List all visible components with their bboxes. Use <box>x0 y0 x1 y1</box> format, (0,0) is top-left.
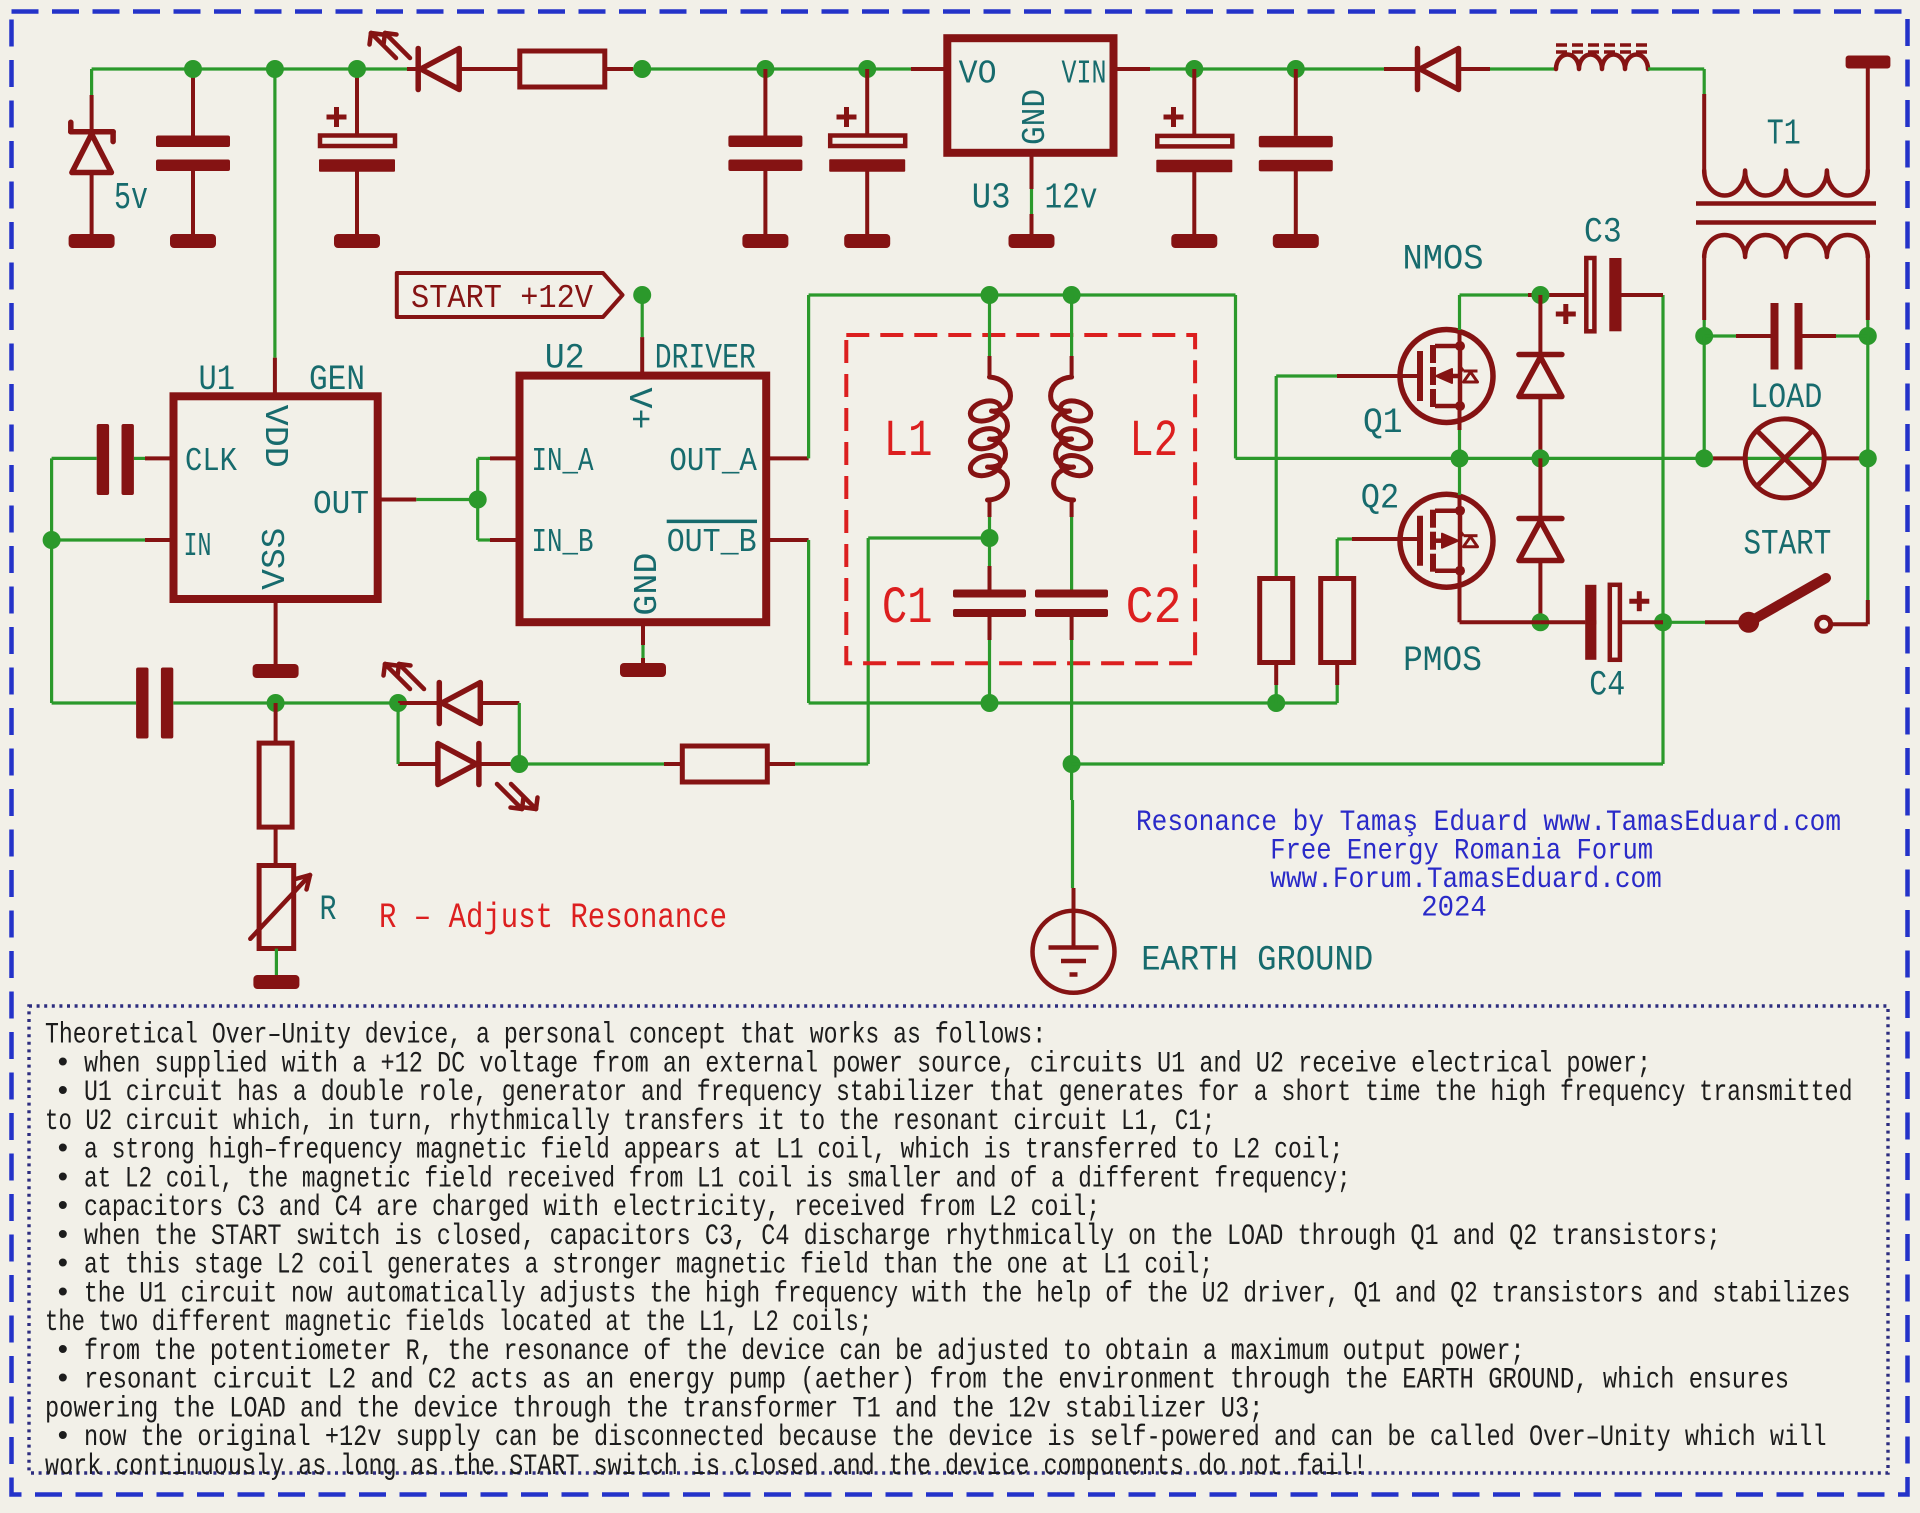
resistor R3 <box>682 746 767 782</box>
junction <box>858 60 876 78</box>
wire L3 to T1 <box>1648 67 1704 70</box>
ground C8 <box>844 234 890 248</box>
ground VSS <box>253 664 299 678</box>
junction D6 top <box>1531 286 1549 304</box>
svg-text:OUT_B: OUT_B <box>667 524 757 561</box>
pot gnd lead <box>275 949 278 975</box>
svg-text:START: START <box>1744 525 1832 565</box>
svg-text:5v: 5v <box>114 177 148 220</box>
wire load right <box>1866 336 1869 458</box>
svg-text:L2: L2 <box>1129 412 1178 471</box>
text description box <box>29 1006 1888 1473</box>
junction IN <box>43 531 61 549</box>
potentiometer R <box>259 866 294 949</box>
wire loop right <box>1234 295 1237 458</box>
resistor R5 <box>1321 579 1354 663</box>
svg-text:OUT: OUT <box>313 486 369 523</box>
wire R2 lead <box>274 703 278 743</box>
junction led2 <box>510 755 528 773</box>
junction VDD rail <box>266 60 284 78</box>
wire C4 left <box>1585 620 1596 624</box>
junction earth <box>1063 755 1081 773</box>
ground pot <box>253 975 299 989</box>
lamp LOAD <box>1704 456 1745 460</box>
svg-text:VO: VO <box>959 56 997 93</box>
box resonant dashed <box>846 335 1195 663</box>
terminal bar T1 <box>1846 56 1891 69</box>
inductor L2 <box>1070 295 1073 356</box>
wire to switch <box>1663 621 1705 624</box>
inductor L1 <box>988 295 991 356</box>
capacitor C6 electrolytic <box>355 69 359 136</box>
wire D3 left lead <box>398 701 439 705</box>
wire LED to R1 <box>459 67 520 71</box>
wire C12 corner <box>52 457 97 460</box>
wire R1 to U3 <box>605 67 633 71</box>
ground C9 <box>1171 234 1217 248</box>
wire T1 sec right <box>1866 257 1870 320</box>
transistor Q2 gate wire <box>1337 537 1352 540</box>
junction START net <box>633 60 651 78</box>
junction D7 bottom <box>1531 613 1549 631</box>
pin INB <box>490 538 520 542</box>
svg-text:VIN: VIN <box>1062 56 1107 93</box>
ground C10 <box>1273 234 1319 248</box>
wire C4r up C3r <box>1661 295 1664 622</box>
junction Q1Q2 <box>1451 449 1469 467</box>
junction load right <box>1859 449 1877 467</box>
junction <box>348 60 366 78</box>
pin OUT_B <box>766 538 808 542</box>
svg-text:C4: C4 <box>1589 665 1625 705</box>
pin GND U2 <box>641 622 645 645</box>
svg-text:OUT_A: OUT_A <box>669 443 757 480</box>
capacitor C13 <box>136 668 148 739</box>
wire Q1 drain <box>1458 295 1461 330</box>
overline OUT_B <box>667 520 757 524</box>
resistor R1 <box>520 51 605 87</box>
junction <box>1063 286 1081 304</box>
svg-text:IN: IN <box>184 528 212 565</box>
svg-text:CLK: CLK <box>185 443 237 480</box>
pin V+ <box>641 295 644 337</box>
pin OUT <box>378 498 417 502</box>
junction start <box>633 286 651 304</box>
svg-text:U3: U3 <box>972 178 1011 219</box>
svg-text:T1: T1 <box>1767 114 1801 155</box>
svg-text:PMOS: PMOS <box>1403 641 1482 681</box>
ic U2 body <box>520 376 767 623</box>
plus C4 <box>1629 599 1649 604</box>
svg-text:2024: 2024 <box>1421 892 1487 926</box>
resistor R2 <box>259 743 292 827</box>
ic U1 body <box>174 396 378 599</box>
wire earth to C4 net <box>1072 762 1663 765</box>
wire D2 to L3 <box>1459 67 1491 71</box>
svg-text:IN_B: IN_B <box>532 524 594 561</box>
junction <box>1287 60 1305 78</box>
svg-text:C3: C3 <box>1584 213 1622 253</box>
wire Q2 source <box>1458 571 1462 623</box>
wire down left <box>50 540 53 703</box>
ground C5 <box>170 234 216 248</box>
svg-text:GND: GND <box>1017 89 1054 145</box>
capacitor C4 <box>1585 585 1596 660</box>
wire load left <box>1703 336 1706 458</box>
capacitor C8 electrolytic <box>865 69 869 136</box>
ground zener <box>69 234 115 248</box>
wire VIN rail <box>1114 67 1151 71</box>
wire top rail left <box>92 67 407 70</box>
plus C8 <box>837 115 857 120</box>
LED D4 <box>476 744 482 785</box>
svg-text:Q2: Q2 <box>1361 479 1399 519</box>
wire Q1 source <box>1458 406 1462 430</box>
capacitor C7 <box>763 69 767 136</box>
svg-text:R: R <box>320 890 337 930</box>
junction C4 right <box>1654 613 1672 631</box>
capacitor C5 <box>191 69 195 136</box>
junction L1 C1 <box>981 529 999 547</box>
transistor Q1 NMOS <box>1400 330 1493 423</box>
pin VDD <box>273 69 276 358</box>
svg-text:C1: C1 <box>882 579 933 638</box>
wire D3 right <box>480 701 519 705</box>
transformer T1 core <box>1696 201 1876 206</box>
wire OUT_A loop <box>807 295 810 458</box>
pin OUT_A <box>766 456 808 460</box>
svg-text:12v: 12v <box>1045 178 1098 219</box>
capacitor C2 <box>1035 590 1108 598</box>
wire D4 left <box>398 762 438 766</box>
wire D4 right lead <box>479 762 519 766</box>
wire R5 bottom <box>1336 685 1339 703</box>
svg-text:V+: V+ <box>620 388 657 430</box>
junction C1 <box>981 694 999 712</box>
capacitor C12 <box>97 424 109 495</box>
wire switch right <box>1831 622 1868 626</box>
junction <box>981 286 999 304</box>
svg-text:VSS: VSS <box>257 528 294 590</box>
wire zener drop <box>90 69 93 95</box>
junction OUT <box>469 491 487 509</box>
earth ground symbol <box>1033 911 1115 993</box>
pin U3 GND <box>1030 153 1034 189</box>
svg-text:work continuously as long as t: work continuously as long as the START s… <box>45 1449 1367 1483</box>
pin VSS <box>274 599 278 666</box>
junction <box>1185 60 1203 78</box>
capacitor C9 electrolytic <box>1192 69 1196 136</box>
svg-text:DRIVER: DRIVER <box>655 339 756 379</box>
svg-text:GND: GND <box>629 553 666 616</box>
plus C6 <box>327 115 347 120</box>
wire1 lower <box>173 701 398 704</box>
zener diode D5 5v <box>71 129 113 135</box>
capacitor C10 <box>1294 69 1298 136</box>
svg-text:Q1: Q1 <box>1363 403 1403 443</box>
LED D1 <box>415 49 421 90</box>
wire led to R3 <box>519 762 682 765</box>
junction <box>184 60 202 78</box>
svg-text:U2: U2 <box>545 339 585 379</box>
wire R4 bottom <box>1274 662 1278 685</box>
wire earth lead <box>1070 764 1073 800</box>
capacitor C3 <box>1586 258 1594 331</box>
svg-text:VDD: VDD <box>256 405 293 468</box>
wire gate down R5 <box>1336 539 1339 580</box>
plus C9 <box>1164 115 1184 120</box>
capacitor C1 <box>988 538 991 566</box>
svg-text:R – Adjust Resonance: R – Adjust Resonance <box>379 898 727 938</box>
svg-text:START +12V: START +12V <box>411 280 593 317</box>
wire Q2 drain <box>1458 458 1461 495</box>
transformer T1 primary <box>1704 171 1868 196</box>
ground C7 <box>742 234 788 248</box>
resistor R4 <box>1260 579 1293 663</box>
inductor L3 <box>1556 55 1648 70</box>
transformer T1 secondary <box>1704 235 1868 257</box>
pot lead <box>274 827 278 865</box>
LED D3 <box>437 683 443 724</box>
junction <box>1859 327 1877 345</box>
wire C4 right <box>1620 620 1663 624</box>
svg-text:L1: L1 <box>884 412 933 471</box>
switch START SW1 <box>1738 612 1759 633</box>
pin INA <box>490 456 520 460</box>
regulator U3 body <box>947 38 1113 153</box>
svg-text:LOAD: LOAD <box>1750 378 1822 418</box>
diode D6 <box>1538 295 1542 354</box>
capacitor C11 <box>1704 334 1736 337</box>
svg-text:U1: U1 <box>199 360 236 400</box>
transistor Q2 PMOS <box>1400 494 1493 587</box>
ground U3 <box>1009 234 1055 248</box>
svg-text:NMOS: NMOS <box>1403 240 1484 280</box>
plus C3 <box>1556 312 1576 317</box>
junction D6 bottom <box>1531 449 1549 467</box>
junction led <box>389 694 407 712</box>
wire C3 node <box>1460 293 1529 296</box>
svg-text:GEN: GEN <box>309 360 365 400</box>
junction VSS net <box>267 694 285 712</box>
transistor Q1 gate wire <box>1276 374 1337 377</box>
svg-text:IN_A: IN_A <box>532 443 594 480</box>
wire OUT_B loop <box>807 540 810 703</box>
junction <box>756 60 774 78</box>
junction <box>1695 327 1713 345</box>
diode D7 <box>1538 458 1542 518</box>
pin CLK <box>145 456 174 460</box>
diode D2 <box>1415 49 1421 90</box>
svg-text:C2: C2 <box>1126 579 1182 638</box>
label START+12V box <box>397 273 623 317</box>
junction R4 <box>1267 694 1285 712</box>
svg-text:EARTH GROUND: EARTH GROUND <box>1141 940 1373 980</box>
ground C6 <box>334 234 380 248</box>
pin IN <box>145 538 174 542</box>
ground U2 <box>620 663 666 677</box>
wire OUT to INA INB <box>476 458 479 540</box>
wire T1 sec left <box>1702 257 1706 320</box>
wire R3 corner <box>768 762 795 766</box>
junction load left <box>1695 449 1713 467</box>
wire gate down R4 <box>1275 376 1278 580</box>
